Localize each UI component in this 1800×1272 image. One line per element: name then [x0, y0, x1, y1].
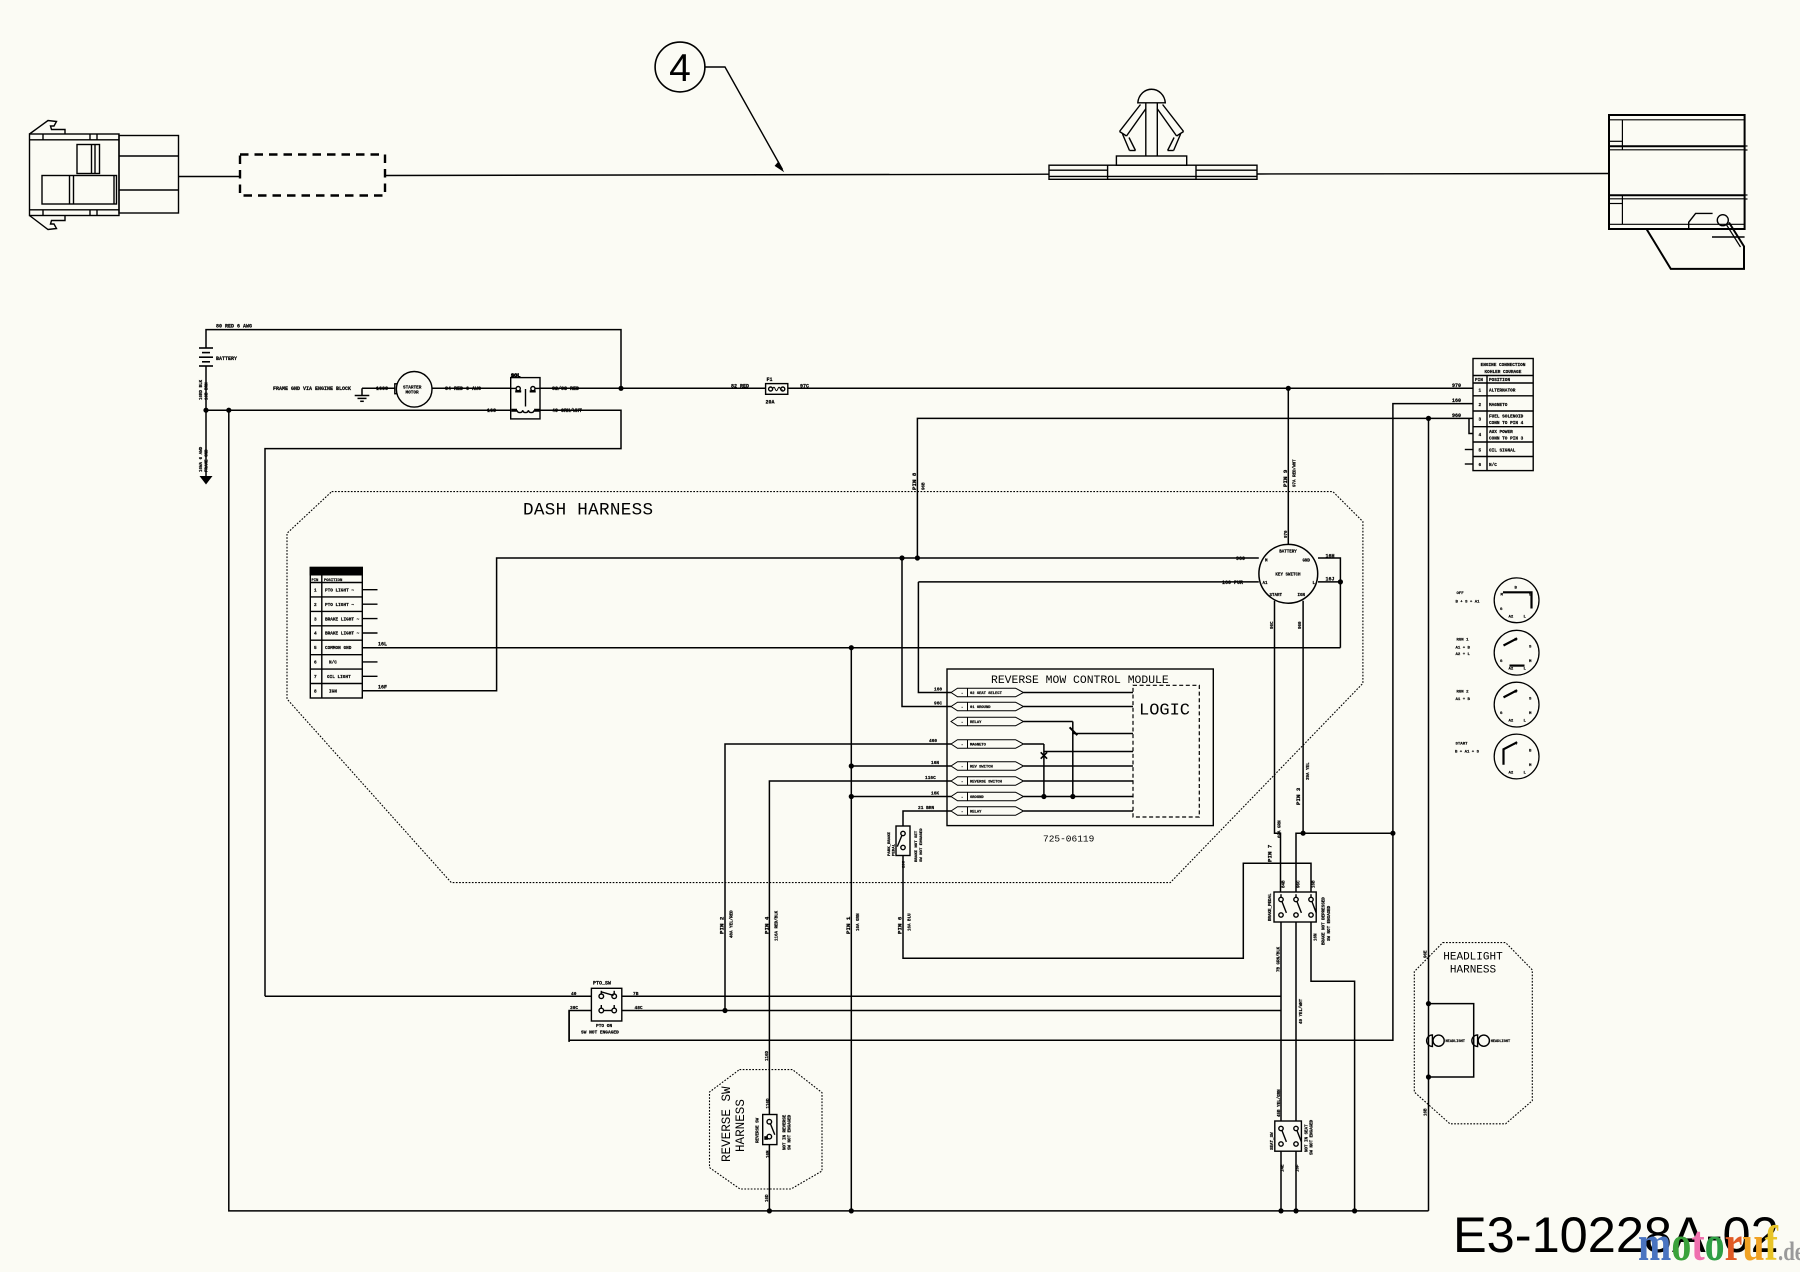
wire engine pin2 / magneto net — [569, 404, 1473, 1041]
svg-text:B + A1 + S: B + A1 + S — [1455, 751, 1480, 755]
module pin terminals — [951, 688, 1024, 815]
svg-text:16M: 16M — [767, 1150, 771, 1158]
wire brake pole2 riser — [1296, 833, 1393, 892]
svg-text:A2: A2 — [1509, 668, 1514, 672]
svg-text:MAGNETO: MAGNETO — [970, 744, 987, 748]
svg-text:96E: 96E — [1425, 950, 1429, 958]
svg-text:160C: 160C — [376, 386, 388, 392]
seat switch — [1275, 1121, 1302, 1151]
svg-text:PIN: PIN — [1475, 378, 1483, 383]
node 16L tap — [849, 645, 854, 650]
key position circle labels — [1455, 587, 1532, 776]
wire 16L common gnd — [362, 647, 1340, 649]
brake pedal switch — [1274, 892, 1316, 922]
node battery - — [203, 408, 208, 413]
wire 96C to module ground pin — [902, 558, 951, 707]
svg-text:SEAT_SW: SEAT_SW — [1271, 1132, 1275, 1150]
svg-text:S: S — [1529, 698, 1532, 702]
svg-text:45B YEL/GRN: 45B YEL/GRN — [1277, 1089, 1282, 1117]
PTO wires — [265, 995, 1281, 997]
svg-text:16B: 16B — [1425, 1108, 1429, 1116]
svg-text:21 BRN: 21 BRN — [918, 805, 935, 811]
node 960/headlight tap — [1426, 416, 1431, 421]
svg-text:16B BRN: 16B BRN — [206, 382, 210, 400]
svg-text:96C: 96C — [1298, 880, 1302, 888]
svg-text:NOT IN REVERSE: NOT IN REVERSE — [784, 1114, 788, 1150]
connector J2 (top right) — [1609, 115, 1748, 269]
wire PIN 4 / reverse switch — [769, 781, 951, 1211]
module internal: diode branch — [1044, 744, 1133, 797]
svg-text:3: 3 — [1479, 418, 1482, 423]
svg-text:2: 2 — [1479, 403, 1482, 408]
svg-text:B: B — [1529, 750, 1532, 754]
dash connector table — [310, 568, 377, 699]
svg-text:DASH HARNESS: DASH HARNESS — [523, 501, 653, 521]
svg-text:4: 4 — [669, 47, 691, 90]
svg-text:5: 5 — [314, 646, 317, 651]
wire engine pin3 / 960 net — [917, 418, 1473, 558]
svg-text:16F: 16F — [1297, 1164, 1301, 1172]
svg-text:960: 960 — [1236, 556, 1245, 562]
svg-text:4: 4 — [1479, 433, 1482, 438]
svg-text:BRAKE LIGHT ~: BRAKE LIGHT ~ — [325, 617, 360, 622]
brake pedal labels (rotated) — [1269, 880, 1332, 1024]
svg-text:39C: 39C — [570, 1005, 578, 1011]
svg-text:3: 3 — [314, 617, 317, 622]
svg-text:N/C: N/C — [1489, 463, 1497, 468]
svg-text:160 PUR: 160 PUR — [1222, 580, 1243, 586]
svg-text:97C: 97C — [800, 384, 809, 390]
svg-text:40A YEL/RED: 40A YEL/RED — [730, 910, 735, 938]
svg-text:BRAKE LIGHT ~: BRAKE LIGHT ~ — [325, 632, 360, 637]
wire 16H / 16J right of key switch — [1318, 558, 1340, 648]
svg-text:2: 2 — [314, 603, 317, 608]
svg-text:REV SWITCH: REV SWITCH — [970, 766, 994, 770]
headlight lamp 2 — [1472, 1035, 1490, 1047]
svg-text:OIL SIGNAL: OIL SIGNAL — [1489, 449, 1516, 454]
PIN labels (rotated) — [719, 459, 1311, 941]
svg-text:960: 960 — [1299, 621, 1303, 629]
node relay bottom — [1070, 794, 1075, 799]
svg-text:80 RED 6 AWG: 80 RED 6 AWG — [216, 324, 252, 330]
svg-text:BATTERY: BATTERY — [216, 356, 237, 362]
svg-text:G: G — [1500, 712, 1503, 716]
svg-text:M: M — [1529, 660, 1532, 664]
dashed identification box on lead — [240, 155, 385, 196]
svg-text:16WA 6 AWD: 16WA 6 AWD — [200, 446, 204, 472]
svg-text:M: M — [1529, 712, 1532, 716]
svg-text:POSITION: POSITION — [324, 579, 343, 583]
node rail: pin1 — [849, 1208, 854, 1213]
wire main B+ line (engine row1 / alternator net) — [362, 387, 1473, 389]
diode X mark — [1041, 752, 1047, 758]
svg-text:ALTERNATOR: ALTERNATOR — [1489, 389, 1516, 394]
svg-text:HEADLIGHT: HEADLIGHT — [1443, 952, 1503, 964]
key switch labels — [1263, 551, 1316, 598]
PTO switch — [591, 988, 621, 1021]
svg-text:14E: 14E — [1282, 1164, 1286, 1172]
svg-text:16C: 16C — [487, 408, 496, 414]
ground arrow (battery frame gnd) — [200, 476, 213, 485]
svg-text:725-06119: 725-06119 — [1043, 834, 1095, 845]
svg-text:PIN 3: PIN 3 — [1295, 787, 1302, 805]
wire 16F / key M net — [362, 558, 1259, 691]
svg-text:CONN TO PIN 3: CONN TO PIN 3 — [1489, 437, 1524, 442]
svg-text:FRAME GND VIA ENGINE BLOCK: FRAME GND VIA ENGINE BLOCK — [273, 386, 351, 392]
node rail: reverse — [767, 1208, 772, 1213]
svg-text:20A: 20A — [766, 400, 775, 406]
svg-text:01 GROUND: 01 GROUND — [970, 706, 991, 710]
node rail: brake3 — [1352, 1208, 1357, 1213]
node magneto net — [1390, 831, 1395, 836]
svg-text:PARK_BRAKE: PARK_BRAKE — [888, 831, 892, 856]
node 16F/960 — [915, 555, 920, 560]
svg-text:G: G — [1500, 660, 1503, 664]
battery negative wire — [206, 366, 621, 996]
svg-text:START: START — [1456, 743, 1469, 747]
svg-text:970: 970 — [1452, 383, 1461, 389]
svg-text:116D: 116D — [766, 1050, 770, 1061]
node rail: seat2 — [1293, 1208, 1298, 1213]
svg-text:HEADLIGHT: HEADLIGHT — [1446, 1040, 1466, 1044]
motoruf watermark — [1638, 1214, 1800, 1272]
svg-text:BRAKE NOT SET: BRAKE NOT SET — [915, 830, 919, 862]
svg-text:PTO_SW: PTO_SW — [593, 981, 611, 987]
seat switch pole drops — [1281, 1151, 1296, 1211]
svg-text:BRAKE_PEDAL: BRAKE_PEDAL — [1269, 893, 1273, 921]
key position diagram RUN 1 — [1494, 630, 1539, 675]
park brake switch — [896, 826, 910, 856]
svg-text:GND: GND — [1303, 560, 1311, 564]
node headlight loop top — [1426, 1001, 1431, 1006]
svg-text:-: - — [961, 781, 963, 785]
svg-text:N/C: N/C — [329, 661, 337, 666]
node headlight loop bottom — [1426, 1074, 1431, 1079]
svg-text:MOTOR: MOTOR — [406, 390, 420, 395]
svg-text:NOT IN SEAT: NOT IN SEAT — [1306, 1124, 1310, 1152]
svg-text:49 ORN/WHT: 49 ORN/WHT — [552, 408, 582, 414]
node pin9 tap — [1286, 386, 1291, 391]
svg-text:48C: 48C — [635, 1005, 643, 1011]
seat switch labels (rotated) — [1271, 1089, 1315, 1172]
headlight harness octagon — [1414, 943, 1532, 1124]
svg-text:96B: 96B — [923, 482, 927, 490]
wire PIN 9 (key switch battery feed) — [1287, 388, 1289, 544]
svg-text:OFF: OFF — [1457, 592, 1465, 596]
svg-text:A1 + B: A1 + B — [1456, 698, 1471, 702]
svg-text:S: S — [1529, 646, 1532, 650]
svg-text:PTO ON: PTO ON — [596, 1023, 613, 1029]
svg-text:82 RED: 82 RED — [731, 384, 749, 390]
svg-text:A1: A1 — [1263, 582, 1269, 586]
svg-text:16F: 16F — [378, 685, 387, 691]
svg-text:96C: 96C — [1271, 621, 1275, 629]
wire 21 BRN via park brake, PIN 6 — [903, 811, 1311, 958]
node rail: seat1 — [1278, 1208, 1283, 1213]
svg-text:84 RED 6 AWG: 84 RED 6 AWG — [445, 386, 481, 392]
wire headlight feed — [1428, 418, 1430, 1211]
svg-text:REVERSE SW: REVERSE SW — [757, 1117, 761, 1143]
engine table text — [1475, 363, 1526, 468]
svg-text:PIN: PIN — [312, 579, 320, 583]
battery — [199, 348, 213, 366]
key position diagram OFF — [1494, 578, 1539, 623]
key position diagram RUN 2 — [1494, 682, 1539, 727]
svg-text:69A GRN: 69A GRN — [1278, 820, 1282, 838]
svg-text:40: 40 — [571, 991, 577, 997]
svg-text:-: - — [961, 766, 963, 770]
callout 4 — [655, 42, 784, 172]
conn-to-pin bracket at engine table — [1469, 418, 1473, 433]
wire 160 PUR — [918, 582, 1258, 693]
svg-text:PTO LIGHT ~: PTO LIGHT ~ — [325, 603, 354, 608]
dash harness outline — [287, 492, 1363, 883]
svg-text:116A RED/BLK: 116A RED/BLK — [775, 910, 780, 941]
svg-text:GROUND: GROUND — [970, 796, 984, 800]
svg-text:160: 160 — [1452, 398, 1461, 404]
node battery + rail — [618, 386, 623, 391]
svg-text:B: B — [1515, 587, 1518, 591]
node pin2 end — [722, 1008, 727, 1013]
svg-text:PIN 1: PIN 1 — [845, 916, 852, 934]
svg-text:7B: 7B — [633, 991, 639, 997]
svg-text:16B: 16B — [1313, 880, 1317, 888]
svg-text:4: 4 — [314, 632, 317, 637]
svg-text:96C: 96C — [934, 701, 942, 707]
svg-text:-: - — [961, 811, 963, 815]
svg-text:AUX POWER: AUX POWER — [1489, 430, 1513, 435]
svg-text:L: L — [1524, 668, 1527, 672]
svg-text:16J: 16J — [1326, 577, 1335, 583]
park brake labels (rotated) — [888, 828, 924, 868]
svg-text:REVERSE SW: REVERSE SW — [720, 1086, 734, 1162]
wire (lead from J1) — [179, 176, 241, 178]
svg-text:16A GRN: 16A GRN — [857, 913, 861, 931]
relay contact mark — [1070, 727, 1078, 735]
wire (lead from clip to J2) — [1257, 173, 1609, 176]
svg-text:16A BLU: 16A BLU — [909, 913, 913, 931]
svg-text:49 YEL/WHT: 49 YEL/WHT — [1299, 998, 1304, 1024]
svg-text:7B GRN/BLK: 7B GRN/BLK — [1277, 946, 1282, 972]
svg-text:16RD BLK: 16RD BLK — [200, 379, 204, 400]
svg-text:RELAY: RELAY — [970, 721, 982, 725]
svg-text:BRAKE NOT DEPRESSED: BRAKE NOT DEPRESSED — [1323, 897, 1327, 945]
svg-text:SW NOT ENGAGED: SW NOT ENGAGED — [789, 1114, 793, 1150]
left rotated labels — [200, 379, 210, 472]
battery positive wire 80 RED 6 AWG — [206, 330, 621, 389]
svg-text:REVERSE MOW CONTROL MODULE: REVERSE MOW CONTROL MODULE — [991, 675, 1169, 687]
svg-text:16D: 16D — [766, 1194, 770, 1202]
svg-text:84B: 84B — [1283, 880, 1287, 888]
svg-text:IGN: IGN — [329, 689, 337, 694]
svg-text:-: - — [961, 744, 963, 748]
svg-text:8: 8 — [314, 689, 317, 694]
svg-text:M: M — [1501, 593, 1504, 597]
outer ground rail — [229, 410, 1429, 1211]
svg-text:SW NOT ENGAGED: SW NOT ENGAGED — [1328, 905, 1332, 941]
J2 latch lever — [1647, 223, 1745, 269]
node pin3/brake — [1301, 831, 1306, 836]
svg-text:02 SEAT SELECT: 02 SEAT SELECT — [970, 692, 1003, 696]
svg-text:PIN 9: PIN 9 — [1282, 469, 1289, 487]
svg-text:6: 6 — [314, 661, 317, 666]
svg-text:1: 1 — [1479, 389, 1482, 394]
connector J1 (2-pin, top left) — [30, 121, 179, 230]
svg-text:RUN 1: RUN 1 — [1457, 639, 1470, 643]
svg-text:SW NOT ENGAGED: SW NOT ENGAGED — [581, 1030, 619, 1036]
starter motor M1 — [395, 384, 401, 394]
reverse mow control module U1 — [947, 669, 1213, 826]
reverse switch — [763, 1115, 777, 1145]
fuse F1 — [766, 384, 788, 395]
module row7 stub — [851, 796, 951, 798]
svg-text:IGN: IGN — [1298, 594, 1306, 598]
node module row7 — [849, 794, 854, 799]
svg-text:116D: 116D — [767, 1098, 771, 1109]
svg-text:RELAY: RELAY — [970, 811, 982, 815]
svg-text:PIN 2: PIN 2 — [719, 916, 726, 934]
svg-text:39A YEL: 39A YEL — [1307, 762, 1311, 780]
svg-text:16N: 16N — [931, 760, 939, 766]
svg-text:6: 6 — [1479, 463, 1482, 468]
cable clip — [1049, 89, 1257, 179]
headlight loop — [1429, 1004, 1474, 1077]
frame gnd drop from battery — [205, 410, 207, 476]
key switch — [1259, 544, 1318, 603]
svg-text:A2: A2 — [1509, 719, 1514, 723]
svg-text:G: G — [1500, 608, 1503, 612]
ground (frame gnd via engine block) — [355, 396, 370, 402]
svg-text:A1 + B: A1 + B — [1456, 647, 1471, 651]
svg-text:16K: 16K — [931, 791, 939, 797]
dash table text — [312, 579, 360, 694]
wire PIN 1 / 16L drop — [850, 648, 852, 1211]
svg-text:SW NOT ENGAGED: SW NOT ENGAGED — [1311, 1119, 1315, 1155]
svg-text:ENGINE CONNECTION: ENGINE CONNECTION — [1481, 363, 1526, 368]
svg-text:PTO LIGHT ~: PTO LIGHT ~ — [325, 588, 354, 593]
svg-text:HARNESS: HARNESS — [734, 1099, 748, 1152]
svg-text:-: - — [961, 692, 963, 696]
svg-text:-: - — [961, 721, 963, 725]
svg-text:L: L — [1524, 719, 1527, 723]
svg-text:116C: 116C — [925, 775, 936, 781]
svg-text:7: 7 — [314, 675, 317, 680]
svg-text:CONN TO PIN 4: CONN TO PIN 4 — [1489, 421, 1524, 426]
svg-text:FRAME GND: FRAME GND — [206, 449, 210, 472]
svg-text:-: - — [961, 796, 963, 800]
table stub wires — [362, 590, 377, 677]
svg-text:RUN 2: RUN 2 — [1457, 691, 1470, 695]
svg-text:SOL: SOL — [511, 373, 520, 379]
wire (main lead to clip) — [385, 174, 1049, 175]
svg-text:MAGNETO: MAGNETO — [1489, 403, 1508, 408]
svg-text:HARNESS: HARNESS — [1450, 965, 1497, 977]
svg-text:460: 460 — [929, 738, 937, 744]
svg-text:29C: 29C — [903, 860, 907, 868]
node 16J — [1338, 579, 1343, 584]
svg-text:5: 5 — [1479, 449, 1482, 454]
headlight lamp 1 — [1427, 1035, 1445, 1047]
engine connector table — [1465, 359, 1533, 471]
svg-text:97A RED/WHT: 97A RED/WHT — [1293, 459, 1298, 487]
module pin labels — [961, 692, 1003, 815]
svg-text:HEADLIGHT: HEADLIGHT — [1491, 1040, 1511, 1044]
svg-text:960: 960 — [1452, 413, 1461, 419]
node 16F/96C — [899, 555, 904, 560]
svg-text:F1: F1 — [767, 377, 773, 383]
svg-text:B + S + A1: B + S + A1 — [1456, 601, 1481, 605]
svg-text:PIN 8: PIN 8 — [911, 472, 918, 490]
svg-text:A2: A2 — [1509, 771, 1514, 775]
svg-text:PIN CONNECTOR: PIN CONNECTOR — [313, 571, 345, 575]
svg-text:START: START — [1270, 594, 1283, 598]
brake pedal pole drops — [1281, 922, 1355, 1211]
svg-text:OIL LIGHT: OIL LIGHT — [327, 675, 351, 680]
svg-text:POSITION: POSITION — [1489, 378, 1510, 383]
module wire labels — [918, 687, 942, 812]
svg-text:PEDAL: PEDAL — [893, 843, 897, 856]
svg-text:COMMON GND: COMMON GND — [325, 646, 352, 651]
svg-text:1: 1 — [314, 588, 317, 593]
svg-text:16H: 16H — [1326, 554, 1335, 560]
solenoid SOL — [511, 378, 540, 419]
logic block — [1133, 685, 1199, 817]
node diode bottom — [1041, 794, 1046, 799]
svg-text:PIN 7: PIN 7 — [1267, 844, 1274, 862]
svg-text:A2: A2 — [1509, 615, 1514, 619]
module internal: pin right leads — [1024, 693, 1134, 812]
key position diagram START — [1494, 734, 1539, 779]
svg-text:L: L — [1524, 771, 1527, 775]
svg-text:L: L — [1524, 615, 1527, 619]
reverse sw harness octagon — [710, 1070, 823, 1189]
svg-text:M: M — [1529, 764, 1532, 768]
svg-text:SW NOT ENGAGED: SW NOT ENGAGED — [920, 828, 924, 862]
module row5 stub — [851, 765, 951, 767]
ground stub (frame gnd) — [361, 388, 363, 395]
svg-text:16N: 16N — [1315, 933, 1319, 941]
svg-text:REVERSE SWITCH: REVERSE SWITCH — [970, 781, 1003, 785]
svg-text:KEY SWITCH: KEY SWITCH — [1275, 573, 1301, 577]
key switch bottom drops: PIN 7 and PIN 3 — [1275, 601, 1281, 892]
svg-text:LOGIC: LOGIC — [1139, 702, 1190, 721]
svg-text:-: - — [961, 706, 963, 710]
node module row5 — [849, 763, 854, 768]
svg-text:FUEL SOLENOID: FUEL SOLENOID — [1489, 415, 1524, 420]
svg-text:PIN 6: PIN 6 — [897, 916, 904, 934]
svg-text:KOHLER COURAGE: KOHLER COURAGE — [1485, 370, 1522, 375]
svg-text:970: 970 — [1285, 530, 1289, 538]
svg-text:16L: 16L — [378, 642, 387, 648]
module internal: relay contact branch — [1073, 722, 1133, 797]
svg-text:160: 160 — [934, 687, 942, 693]
svg-text:PIN 4: PIN 4 — [764, 916, 771, 934]
svg-text:A2 + L: A2 + L — [1456, 653, 1471, 657]
svg-text:BATTERY: BATTERY — [1279, 551, 1297, 555]
svg-text:82/83 RED: 82/83 RED — [552, 386, 579, 392]
wire PIN 2 / magneto module wire — [725, 744, 951, 1011]
